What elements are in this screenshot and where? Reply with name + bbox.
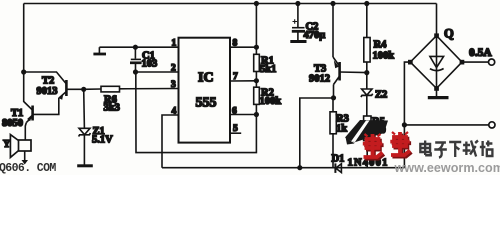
svg-text:Z2: Z2 — [375, 90, 387, 101]
node pin7 — [254, 78, 259, 83]
svg-text:www.eeworm.com: www.eeworm.com — [394, 161, 500, 175]
resistor R4 — [364, 4, 370, 73]
wire T2 base — [66, 88, 83, 90]
node rail/T3 — [330, 1, 335, 6]
svg-text:470μ: 470μ — [304, 30, 326, 41]
wire R1-R2 — [255, 72, 257, 88]
svg-text:3: 3 — [171, 80, 176, 90]
junction dot rail/T2 — [21, 69, 26, 74]
svg-text:2: 2 — [171, 64, 176, 74]
wire left rail — [23, 4, 25, 103]
wire T1 base row from T2 emitter — [33, 98, 59, 114]
diode D1 — [335, 163, 341, 173]
wire pin2 row — [136, 71, 179, 73]
wire bottom rail — [162, 167, 405, 169]
svg-text:1k: 1k — [336, 124, 347, 135]
svg-text:1: 1 — [172, 39, 177, 49]
node pin6 — [254, 112, 259, 117]
svg-text:Q606. COM: Q606. COM — [0, 162, 56, 175]
resistor R3 — [330, 98, 336, 168]
svg-text:9013: 9013 — [37, 86, 58, 97]
node output minus — [402, 122, 407, 127]
wire output plus — [462, 61, 488, 63]
svg-text:0.5A: 0.5A — [469, 47, 492, 59]
svg-text:3k3: 3k3 — [104, 103, 120, 114]
svg-text:Q: Q — [444, 27, 454, 41]
svg-text:T2: T2 — [42, 76, 54, 87]
svg-text:IC: IC — [198, 71, 214, 86]
node T2 base junction — [81, 87, 86, 92]
resistor R6 — [101, 86, 120, 92]
wire top supply rail — [24, 3, 437, 5]
svg-text:9012: 9012 — [309, 74, 330, 85]
node pin8 — [254, 45, 259, 50]
resistor R5 — [364, 116, 371, 168]
ground under C2 — [290, 40, 306, 43]
wire T3 base — [340, 71, 367, 74]
transistor T1 — [24, 102, 33, 123]
svg-text:8050: 8050 — [2, 118, 23, 129]
node T3 base / R4 — [364, 70, 369, 75]
ground under Z1 — [77, 164, 93, 167]
svg-text:103: 103 — [142, 59, 158, 70]
watermark red bug 1 — [364, 136, 384, 159]
wire Z1 drop — [83, 89, 86, 128]
wire pin7 row — [230, 80, 256, 82]
watermark red bug 2 — [392, 134, 412, 157]
wire R1 column top — [255, 4, 257, 55]
wire pins2-6 link column and bottom run — [136, 72, 257, 153]
wire pin5 stub — [230, 132, 241, 134]
ground at pin1 wire — [93, 47, 106, 54]
node C1 top — [133, 45, 138, 50]
svg-text:555: 555 — [196, 96, 217, 111]
svg-text:D1: D1 — [332, 154, 345, 165]
wire base node to R6 — [84, 88, 101, 90]
wire pin6 row — [230, 114, 256, 116]
node rail/C2 — [295, 1, 300, 6]
terminal plus — [489, 59, 495, 65]
transistor T2 — [24, 72, 67, 100]
wire rail drop to bridge — [436, 4, 438, 36]
zener Z2 — [361, 73, 373, 116]
wire T1 emitter to speaker — [25, 123, 26, 140]
ground under bridge — [428, 88, 449, 97]
capacitor C1 — [130, 47, 142, 72]
node rail/R1 — [254, 1, 259, 6]
node pin2 junction — [133, 69, 138, 74]
wire R2 bottom — [255, 104, 257, 114]
wire R6 to pin3 — [120, 88, 179, 90]
wire output minus — [404, 124, 488, 126]
node rail/R4 — [364, 1, 369, 6]
capacitor C2 — [292, 4, 305, 41]
svg-text:100k: 100k — [373, 51, 395, 62]
wire left vertex drop — [404, 62, 410, 168]
wire collector node left and drop — [300, 98, 334, 168]
svg-text:R4: R4 — [374, 40, 388, 51]
terminal minus — [489, 122, 495, 128]
node bottom rail — [297, 165, 302, 170]
watermark CJK text dianzi xiazaizhan — [420, 141, 492, 158]
bridge rectifier Q — [408, 33, 464, 90]
op-amp U1 IC 555 box — [179, 38, 231, 143]
svg-text:5.1V: 5.1V — [92, 135, 113, 146]
wire pin4 row and drop — [162, 115, 179, 168]
transistor T3 — [333, 4, 340, 98]
svg-text:5k1: 5k1 — [260, 64, 276, 75]
zener Z1 — [79, 128, 91, 165]
wire pin1 row — [99, 46, 178, 48]
svg-text:100k: 100k — [260, 96, 282, 107]
resistor R2 — [254, 87, 260, 104]
wire pin8 row — [230, 46, 256, 48]
watermark black arrow logo — [345, 120, 388, 145]
node T3 collector junction — [331, 95, 336, 100]
svg-text:Y: Y — [3, 139, 11, 150]
speaker Y — [10, 135, 31, 165]
resistor R1 — [254, 54, 260, 71]
